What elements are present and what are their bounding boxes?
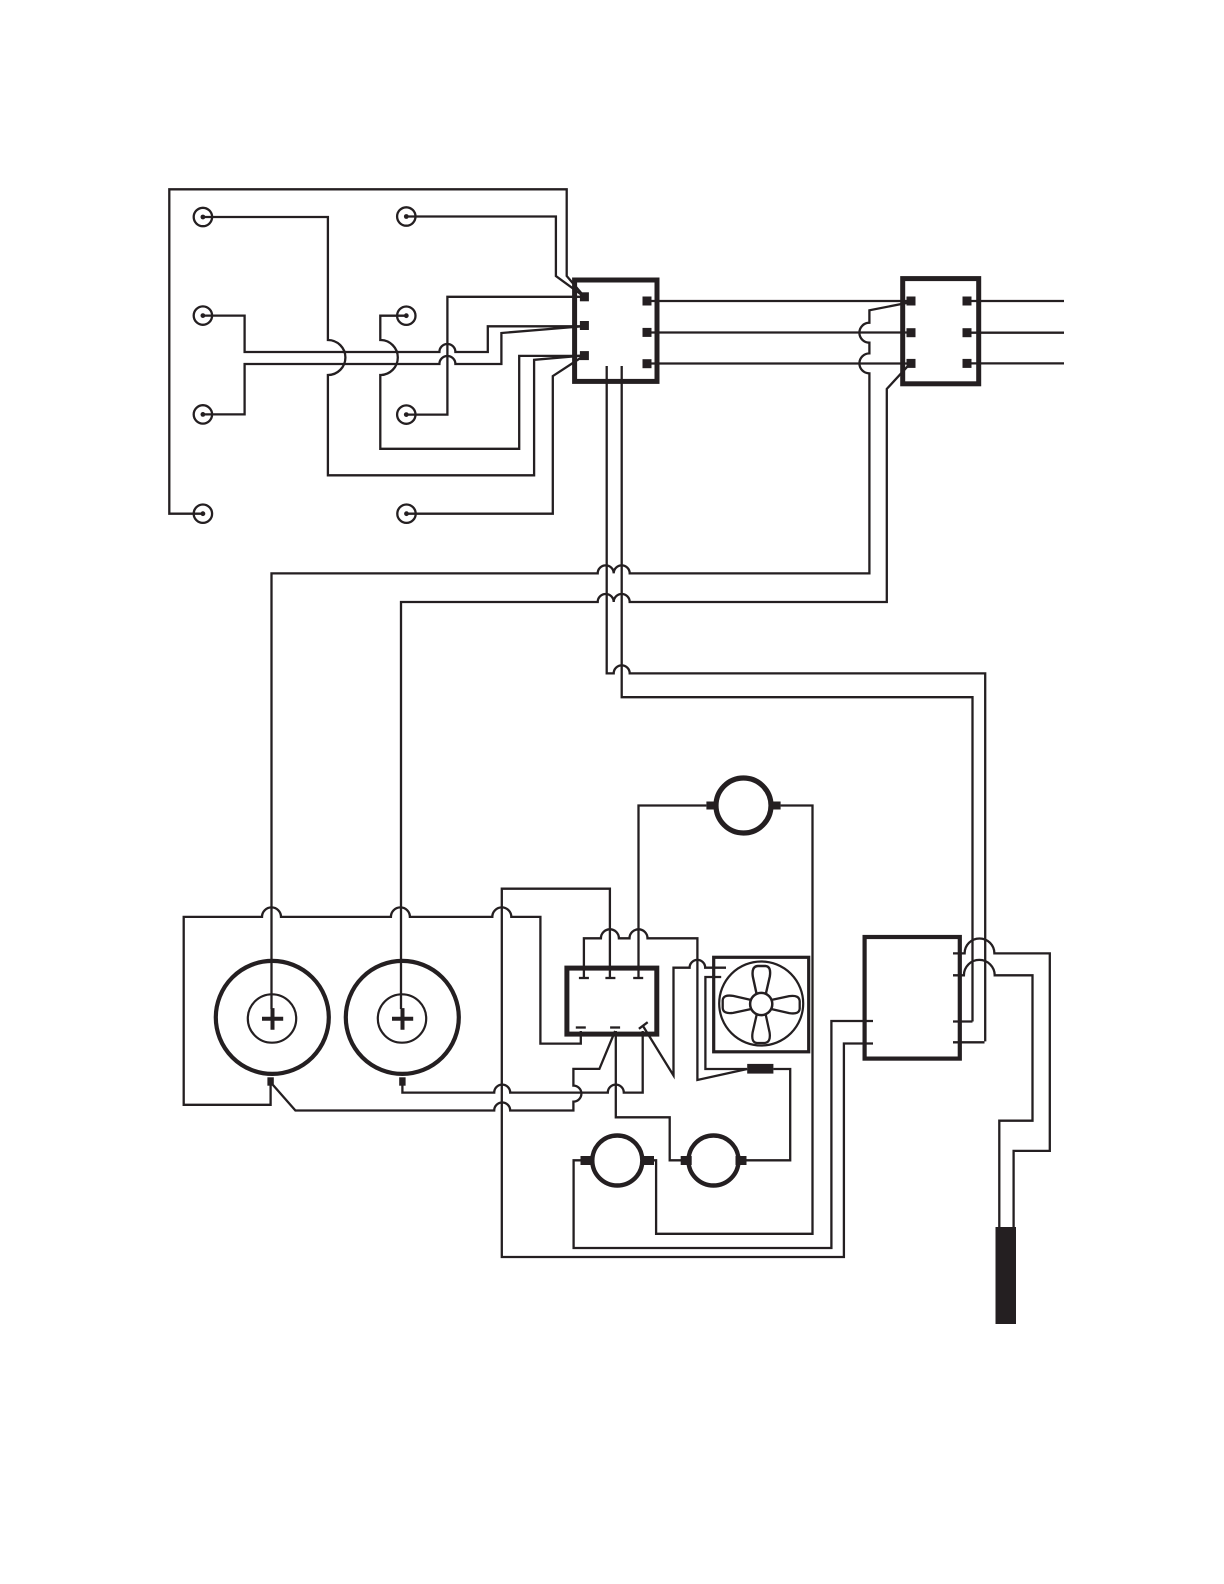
terminal T8 (switch panel, row4 right) (397, 505, 415, 523)
lamp L1 body (592, 1136, 642, 1186)
fan M1 frame (714, 957, 809, 1052)
wire relay top pin 2 to module U1 left pin 4 (long loop) (502, 889, 873, 1257)
wire gauge G2 pin to relay bottom pin 3 (hops verticals) (402, 1031, 642, 1093)
lamp L2 body (689, 1136, 739, 1186)
tick U1 right pin 4 (953, 1041, 985, 1043)
wire hour meter right pin to lamp L1 right pin (654, 806, 813, 1234)
relay K1 top pin 1 tick (579, 977, 589, 979)
wire relay bottom pin 2 to gauge G1 pin (zigzag with hop) (273, 1031, 615, 1111)
wire J1 pin 5 to J2 pin 2 (651, 331, 907, 333)
connector J2 pin 6 (963, 359, 972, 368)
wire J1 pin 6 to J2 pin 3 (651, 362, 907, 364)
wire hour meter left pin to relay top pin 3 (639, 806, 707, 979)
fan M1 blade up (753, 966, 771, 994)
connector J1 pin 3 (580, 351, 589, 360)
wire J2 pin 6 to harness right (971, 362, 1064, 364)
connector J1 pin 6 (643, 359, 652, 368)
terminal T7 (switch panel, row4 left) (194, 505, 212, 523)
wire T2 to connector J1 pin 1 (406, 217, 584, 297)
relay K1 top pin 2 tick (605, 977, 615, 979)
hour meter M2 left pin (706, 802, 714, 810)
connector J2 pin 5 (963, 328, 972, 337)
connector J2 pin 2 (907, 328, 916, 337)
relay K1 body (567, 968, 657, 1034)
wire T8 to connector J1 pin 3 (407, 357, 583, 514)
terminal T3 (switch panel, row2 left) (194, 306, 212, 324)
wire J2 pin 5 to harness right (971, 332, 1064, 334)
gauge G1 body (headlamp) (216, 961, 329, 1074)
relay K1 bottom pin 1 tick (576, 1026, 586, 1028)
hour meter M2 right pin (773, 802, 781, 810)
wire J2 pin 3 to headlamp gauge G2 (401, 365, 909, 1009)
wire T6 to connector J1 pin 1 (406, 297, 580, 415)
wire T7 to connector J1 pin 1 (panel border loop) (169, 189, 584, 513)
terminal T4 (switch panel, row2 right) (397, 307, 415, 325)
lamp L2 left pin (681, 1156, 692, 1165)
gauge G1 bottom pin (267, 1077, 273, 1085)
fan M1 blade right (772, 996, 800, 1014)
wire T3 to connector J1 pin 2 (203, 316, 580, 352)
gauge G2 body (headlamp) (346, 961, 459, 1074)
gauge G1 plus mark (262, 1008, 283, 1030)
connector J2 pin 4 (963, 297, 972, 306)
fan M1 shroud circle (719, 962, 803, 1046)
connector J1 pin 1 (580, 292, 589, 301)
wire T1 to connector J1 pin 3 (hops bus pair) (203, 217, 580, 475)
gauge G2 bottom pin (399, 1077, 405, 1085)
tick U1 right pin 3 (953, 1020, 973, 1022)
gauge G2 inner ring (378, 994, 426, 1042)
gauge G2 plus mark (392, 1008, 413, 1030)
relay K1 top pin 3 tick (633, 977, 643, 979)
resistor R1 body (747, 1064, 773, 1074)
wire relay bottom pin 3 to fan top pin (643, 960, 726, 1076)
gauge G1 inner ring (248, 994, 296, 1042)
fan M1 blade down (752, 1015, 770, 1043)
wire relay bottom pin 1 to gauge G1 minus (box loop) (184, 907, 581, 1104)
lamp L1 right pin (643, 1156, 654, 1165)
connector J2 body (903, 279, 979, 384)
battery cable lug (996, 1227, 1017, 1324)
wire J1 bottom pin B to module U1 right pin 3 (622, 366, 973, 1022)
fan M1 hub (750, 993, 772, 1015)
wire resistor R1 to lamp L2 right pin (746, 1069, 790, 1160)
wire J1 bottom pin A to module U1 right pin 4 (607, 366, 986, 1041)
wire relay bottom pin 2 to lamp L2 left pin (616, 1031, 681, 1160)
terminal T5 (switch panel, row3 left) (194, 405, 212, 423)
terminal T2 (switch panel, row1 right) (397, 207, 415, 225)
relay K1 bottom pin 2 tick (610, 1026, 620, 1028)
wire J2 pin 1 to headlamp gauge G1 (left drop with hops) (272, 303, 910, 1010)
connector J1 pin 4 (643, 297, 652, 306)
lamp L2 right pin (736, 1156, 747, 1165)
wire U1 right pin 2 to battery lead (wide hop) (953, 960, 1033, 1227)
hour meter M2 body (716, 778, 771, 833)
lamp L1 left pin (581, 1156, 592, 1165)
terminal T6 (switch panel, row3 right) (397, 405, 415, 423)
connector J1 pin 2 (580, 321, 589, 330)
connector J2 pin 1 (907, 297, 916, 306)
wire T4 to connector J1 pin 3 (hops bus pair) (380, 316, 580, 449)
fan M1 blade left (723, 996, 751, 1014)
wire relay top bus pin1 to resistor R1 (hops pin2, pin3 drops) (584, 929, 747, 1080)
wire J2 pin 4 to harness right (971, 300, 1064, 302)
wire lamp L1 left pin to module U1 left pin 3 (574, 1021, 873, 1248)
connector J2 pin 3 (907, 359, 916, 368)
relay K1 bottom pin 3 tick (slanted) (639, 1022, 648, 1029)
wire U1 right pin 1 to battery lead (hops two verticals) (953, 938, 1050, 1227)
wire J1 pin 4 to J2 pin 1 (651, 300, 907, 302)
wire fan lower pin to resistor R1 (705, 977, 747, 1069)
wire T5 to connector J1 pin 2 (203, 327, 580, 415)
module U1 body (865, 937, 960, 1059)
connector J1 pin 5 (643, 328, 652, 337)
connector J1 body (575, 280, 657, 381)
terminal T1 (switch panel, row1 left) (194, 208, 212, 226)
